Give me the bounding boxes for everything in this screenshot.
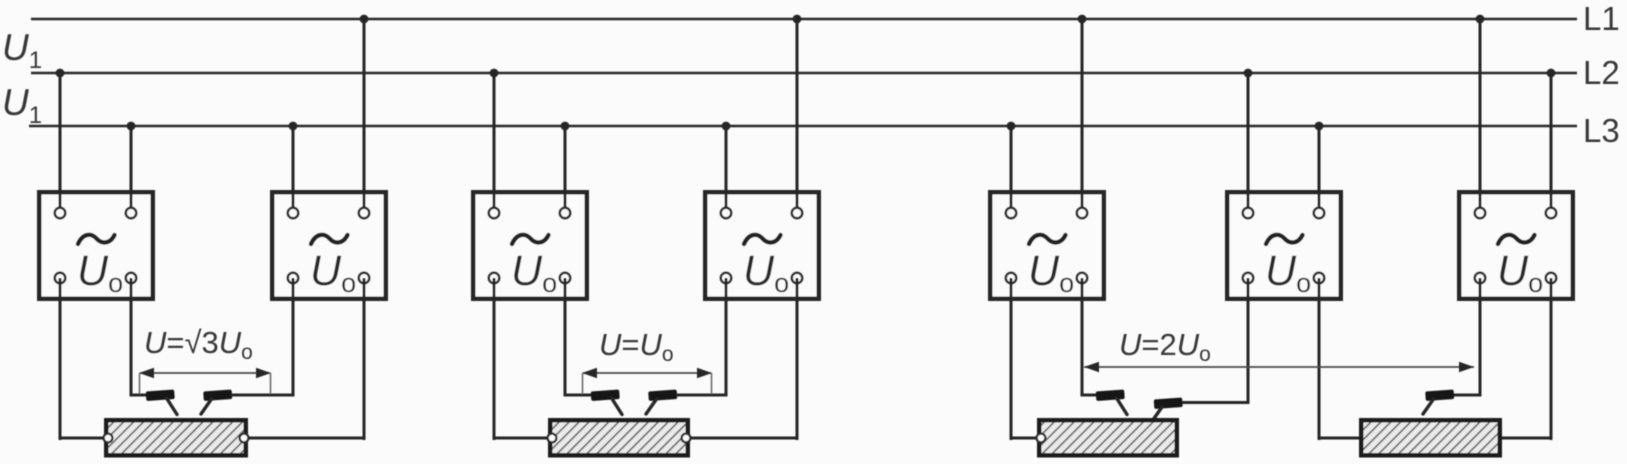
T6 terminal pin bottom-right <box>1314 273 1325 284</box>
wire T2 bottom-right down <box>363 278 366 440</box>
T4 terminal pin bottom-left <box>721 273 732 284</box>
T1 AC tilde symbol <box>78 235 115 244</box>
wire T5 bottom-right down <box>1081 278 1084 397</box>
wire T5 bottom-left to workpiece W3 left terminal <box>1010 437 1042 440</box>
wire T4 bottom-right to workpiece W2 right terminal <box>686 437 799 440</box>
wire T5 top-left terminal to line <box>1010 126 1013 213</box>
wire electrode D to T4 bottom-left <box>676 394 728 397</box>
svg-text:U=√3Uo: U=√3Uo <box>144 325 253 364</box>
junction dot T3 top-right <box>561 122 570 131</box>
workpiece W4 (hatched bar) <box>1361 420 1500 455</box>
electrode G tip line <box>1423 399 1434 414</box>
wire T1 bottom-left down <box>59 278 62 440</box>
measure arrow U=Uo line <box>583 372 711 374</box>
T6 terminal pin top-right <box>1314 208 1325 219</box>
electrode F tip line <box>1152 407 1163 422</box>
power line L2 <box>31 72 1577 75</box>
junction dot T7 top-right <box>1547 69 1556 78</box>
junction dot T1 top-left <box>56 69 65 78</box>
wire T1 bottom-right down <box>130 278 133 397</box>
T7 terminal pin top-right <box>1546 208 1557 219</box>
transformer T3 box <box>473 192 587 299</box>
wire T3 top-left terminal to line <box>493 73 496 213</box>
electrode C contact bar <box>591 390 620 401</box>
T1 terminal pin top-left <box>55 208 66 219</box>
junction dot T7 top-left <box>1476 15 1485 24</box>
wire T1 top-right terminal to line <box>130 126 133 213</box>
wire T3 bottom-left to workpiece W2 left terminal <box>493 437 553 440</box>
T1 terminal pin bottom-right <box>126 273 137 284</box>
T1 terminal pin top-right <box>126 208 137 219</box>
wire T4 top-right terminal to line <box>796 19 799 213</box>
workpiece W1 terminal left <box>104 434 113 443</box>
wire T7 top-left terminal to line <box>1479 19 1482 213</box>
wire T5 top-right terminal to line <box>1081 19 1084 213</box>
electrode A contact bar <box>146 390 175 401</box>
T5 terminal pin top-right <box>1077 208 1088 219</box>
wire T5 bottom-right to electrode E <box>1081 394 1098 397</box>
wire T7 top-right terminal to line <box>1550 73 1553 213</box>
T7 terminal pin bottom-right <box>1546 273 1557 284</box>
svg-text:L1: L1 <box>1583 0 1620 37</box>
transformer T5 box <box>990 192 1104 299</box>
workpiece W1 (hatched bar) <box>106 420 246 455</box>
junction dot T5 top-left <box>1007 122 1016 131</box>
measure arrow right tick <box>270 373 272 394</box>
electrode F contact bar <box>1154 398 1183 409</box>
wire T1 bottom-right to electrode A <box>130 394 148 397</box>
junction dot T5 top-right <box>1078 15 1087 24</box>
wire T2 bottom-right to workpiece W1 right terminal <box>244 437 366 440</box>
T7 AC tilde symbol <box>1498 235 1535 244</box>
power line L3 <box>29 125 1577 128</box>
junction dot T3 top-left <box>490 69 499 78</box>
T2 terminal pin top-right <box>359 208 370 219</box>
wire electrode B to T2 bottom-left <box>231 394 295 397</box>
measure arrow U=Uo right tick <box>711 373 713 394</box>
T2 terminal pin bottom-right <box>359 273 370 284</box>
transformer T2 box <box>272 192 386 299</box>
T3 terminal pin bottom-right <box>560 273 571 284</box>
wire T6 top-left terminal to line <box>1247 73 1250 213</box>
wire T7 bottom-right to workpiece W4 right edge <box>1502 437 1553 440</box>
T4 terminal pin top-right <box>792 208 803 219</box>
T2 AC tilde symbol <box>311 235 348 244</box>
T5 AC tilde symbol <box>1029 235 1066 244</box>
electrode B contact bar <box>203 390 232 401</box>
wire T3 top-right terminal to line <box>564 126 567 213</box>
svg-text:U=2Uo: U=2Uo <box>1119 327 1211 366</box>
T5 terminal pin top-left <box>1006 208 1017 219</box>
junction dot T6 top-right <box>1315 122 1324 131</box>
electrode A tip line <box>167 398 178 415</box>
wire T5 bottom-left down <box>1010 278 1013 440</box>
T7 terminal pin top-left <box>1475 208 1486 219</box>
T6 AC tilde symbol <box>1266 235 1303 244</box>
T3 terminal pin top-left <box>489 208 500 219</box>
wire T2 bottom-left down <box>292 278 295 397</box>
wire T7 bottom-left to electrode G <box>1453 394 1482 397</box>
T2 terminal pin top-left <box>288 208 299 219</box>
measure arrow U=Uo right head <box>697 368 712 379</box>
wire electrode F to T6 bottom-left <box>1182 401 1250 404</box>
junction dot T4 top-right <box>793 15 802 24</box>
junction dot T2 top-left <box>289 122 298 131</box>
measure arrow U=sqrt3Uo line <box>140 372 270 374</box>
wire T1 top-left terminal to line <box>59 73 62 213</box>
T7 terminal pin bottom-left <box>1475 273 1486 284</box>
T5 terminal pin bottom-left <box>1006 273 1017 284</box>
workpiece W1 terminal right <box>240 434 249 443</box>
T6 terminal pin top-left <box>1243 208 1254 219</box>
wire T2 top-right terminal to line <box>363 19 366 213</box>
power line L1 <box>31 18 1577 21</box>
junction dot T4 top-left <box>722 122 731 131</box>
T3 terminal pin bottom-left <box>489 273 500 284</box>
measure arrow U=Uo left head <box>582 368 597 379</box>
wire T4 bottom-right down <box>796 278 799 440</box>
workpiece W3 terminal left <box>1037 434 1046 443</box>
electrode G contact bar <box>1425 390 1454 401</box>
wire T6 bottom-right down <box>1318 278 1321 440</box>
electrode C tip line <box>612 398 623 415</box>
transformer T6 box <box>1227 192 1341 299</box>
measure arrow U=2Uo line <box>1084 366 1474 368</box>
transformer T7 box <box>1459 192 1573 299</box>
wire T4 top-left terminal to line <box>725 126 728 213</box>
T5 terminal pin bottom-right <box>1077 273 1088 284</box>
transformer T1 box <box>39 192 153 299</box>
svg-text:L2: L2 <box>1583 54 1620 91</box>
wire T6 bottom-right to workpiece W4 left edge <box>1318 437 1362 440</box>
workpiece W2 (hatched bar) <box>550 420 688 455</box>
T4 terminal pin top-left <box>721 208 732 219</box>
wire T3 bottom-left down <box>493 278 496 440</box>
T3 terminal pin top-right <box>560 208 571 219</box>
wire T4 bottom-left down <box>725 278 728 397</box>
wire T6 bottom-left down <box>1247 278 1250 404</box>
measure arrow right head <box>256 368 271 379</box>
electrode B tip line <box>201 399 212 414</box>
wire T7 bottom-right down <box>1550 278 1553 440</box>
measure arrow U=2Uo left head <box>1084 362 1099 373</box>
measure arrow left head <box>139 368 154 379</box>
electrode E tip line <box>1117 398 1128 415</box>
T6 terminal pin bottom-left <box>1243 273 1254 284</box>
T4 terminal pin bottom-right <box>792 273 803 284</box>
workpiece W2 terminal left <box>548 434 557 443</box>
T4 AC tilde symbol <box>744 235 781 244</box>
svg-text:L3: L3 <box>1583 112 1620 149</box>
junction dot T2 top-right <box>360 15 369 24</box>
electrode D tip line <box>646 399 657 414</box>
wire T3 bottom-right down <box>564 278 567 397</box>
measure arrow U=2Uo right head <box>1459 362 1474 373</box>
T2 terminal pin bottom-left <box>288 273 299 284</box>
T1 terminal pin bottom-left <box>55 273 66 284</box>
wire T1 bottom-left to workpiece W1 left terminal <box>59 437 109 440</box>
measure arrow left tick <box>139 373 141 394</box>
junction dot T6 top-left <box>1244 69 1253 78</box>
workpiece W3 (hatched bar) <box>1039 420 1177 455</box>
wire T6 top-right terminal to line <box>1318 126 1321 213</box>
junction dot T1 top-right <box>127 122 136 131</box>
workpiece W2 terminal right <box>682 434 691 443</box>
wire T2 top-left terminal to line <box>292 126 295 213</box>
measure arrow U=Uo left tick <box>582 373 584 394</box>
T3 AC tilde symbol <box>512 235 549 244</box>
wire T7 bottom-left down <box>1479 278 1482 397</box>
transformer T4 box <box>705 192 819 299</box>
wire T3 bottom-right to electrode C <box>564 394 593 397</box>
electrode D contact bar <box>648 390 677 401</box>
electrode E contact bar <box>1096 390 1125 401</box>
